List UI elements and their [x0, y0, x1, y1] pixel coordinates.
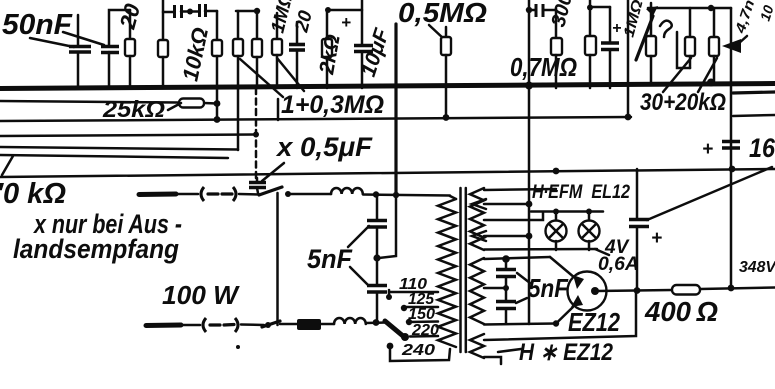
wire vertical x529 top [528, 0, 531, 88]
capacitor C5 [289, 22, 305, 88]
label 125 [408, 291, 435, 308]
pointer 25kOhm [168, 103, 181, 110]
speck [236, 345, 240, 349]
transformer T1 primary winding [438, 199, 456, 347]
label 5nF left [307, 244, 353, 274]
plug pin dashes L1 [208, 192, 232, 195]
wire C1 top [77, 15, 80, 46]
node dot x529 y204 [526, 201, 533, 208]
label 110 [399, 276, 427, 293]
resistor R2 [158, 0, 168, 88]
node dot lamp2 top [586, 209, 592, 215]
main bus wire [0, 84, 775, 89]
tap 110 wire [386, 290, 438, 300]
heater rail bottom [484, 248, 597, 251]
node dot x396 L1 [393, 192, 399, 198]
capacitor C12 5nF [496, 302, 516, 324]
selector blade 220 [385, 321, 409, 341]
transformer T1 secondary winding S2 [470, 258, 484, 324]
pointer 20k [698, 58, 717, 92]
label plus 10uF [341, 13, 351, 32]
node dot cap midpoint [373, 254, 380, 261]
lamp stub top 1 [555, 211, 558, 221]
arrow tail x731 [738, 36, 747, 44]
pointer 0,3M [277, 58, 304, 91]
label 20 rotated [114, 0, 145, 32]
svg-text:x 0,5μF: x 0,5μF [275, 132, 374, 162]
svg-text:EZ12: EZ12 [568, 307, 620, 337]
wire vertical x529 lower [528, 88, 531, 324]
label 0,6A [598, 254, 639, 275]
wire line C y135 [0, 135, 257, 137]
pointer 16uF diagonal [647, 167, 772, 220]
svg-text:+: + [651, 228, 662, 249]
node dot x217 B [214, 116, 221, 123]
output wire right [700, 288, 775, 290]
label x0,5uF [275, 132, 374, 162]
svg-text:0,5MΩ: 0,5MΩ [398, 0, 487, 28]
wire line A y101 with 25k [0, 101, 217, 104]
node dot x506 y259 [502, 255, 510, 263]
lamp stub bottom 1 [555, 241, 558, 250]
pointer 1M [240, 59, 283, 97]
resistor R3 [212, 11, 222, 88]
potentiometer P1 wiper arrow [636, 6, 658, 60]
plug socket L1 left [201, 187, 204, 201]
resistor R14 400 Ohm [672, 285, 700, 295]
label 4,7n rotated [731, 0, 757, 36]
pointer tail left edge [2, 156, 13, 175]
mains wire L2 cont [241, 323, 264, 326]
label plus C8 [612, 20, 621, 37]
label 10uF rotated [357, 25, 394, 80]
node dot L6 x556 [553, 168, 560, 175]
wire vertical x238 [237, 88, 240, 150]
wire main vertical x396 [394, 24, 397, 196]
label 0,5MOhm [398, 0, 487, 28]
resistor R6 [272, 13, 282, 88]
node dot bus x529 [525, 82, 533, 90]
svg-text:150: 150 [408, 306, 435, 323]
node dot x506 y288 [503, 285, 509, 291]
lamp H1 EL12 heater [546, 221, 567, 242]
capacitor C14 16uF symbol [722, 142, 740, 149]
capacitor C13 electrolytic [629, 220, 649, 227]
wire line E y156 [0, 155, 228, 158]
wire vertical x628 [627, 0, 630, 117]
label 4V [604, 237, 630, 258]
svg-text:25kΩ: 25kΩ [102, 96, 165, 122]
wire to 4V label [595, 249, 609, 255]
fuse F1 [280, 319, 321, 330]
node dot R5 top [254, 8, 260, 14]
EZ12 anode chevron 1 [573, 275, 584, 289]
resistor R9 300 [551, 8, 562, 88]
sec tap y236 [484, 235, 530, 238]
heater rail top [531, 210, 603, 213]
svg-text:30+20kΩ: 30+20kΩ [640, 89, 726, 116]
sec tap chevron y236 [472, 231, 486, 241]
mains wire L2 stub [146, 323, 181, 329]
resistor R8 0,5M [441, 27, 451, 117]
wire vertical x731 upper [730, 8, 733, 169]
node dot bus x711 [707, 79, 715, 87]
node dot x217 A [214, 100, 221, 107]
node dot rail x711 [708, 5, 714, 11]
svg-text:400 Ω: 400 Ω [644, 296, 718, 327]
wire stub x278 [277, 99, 280, 120]
arrow tap x731 [722, 39, 741, 53]
anode1 diagonal [550, 257, 575, 278]
tube EZ12 envelope [568, 272, 607, 311]
wire jumper 2k to 10uF [327, 9, 362, 12]
pointer 5nF upper [348, 226, 369, 247]
resistor R11 30k [685, 8, 695, 68]
resistor R12 20k [709, 8, 719, 84]
transformer T1 secondary winding S1 [470, 188, 484, 250]
label x nur bei Aus [32, 209, 182, 239]
label 30+20kOhm [640, 89, 726, 116]
plug pin dashes L2 [210, 323, 234, 327]
pointer 5nF C12 [516, 298, 527, 303]
heater return wire y338 [484, 292, 636, 340]
pointer x0,5uF [262, 163, 284, 181]
wire rail y93 right [733, 92, 775, 93]
primary top entry [450, 196, 456, 199]
resistor R10 [585, 0, 596, 88]
capacitor C9 5nF upper [367, 196, 387, 257]
plug socket L1 right [233, 187, 236, 201]
label plus C13 [651, 228, 662, 249]
label 300 rotated [548, 0, 577, 29]
capacitor C6 10uF electrolytic [354, 0, 373, 88]
node dot x376 L2 [373, 319, 380, 326]
label landsempfang [13, 234, 179, 264]
node dot L6 x732 [729, 166, 736, 173]
plug socket L2 right [235, 318, 238, 332]
capacitor C1 50nF [69, 47, 91, 53]
svg-text:0,7MΩ: 0,7MΩ [510, 52, 577, 82]
dashed link x256 [255, 88, 258, 178]
svg-text:1+0,3MΩ: 1+0,3MΩ [281, 91, 384, 119]
sec tap chevron y204 [472, 199, 486, 209]
potentiometer P1 1M body [646, 3, 656, 85]
lamp stub top 2 [588, 211, 591, 221]
resistor R4 [233, 11, 243, 88]
svg-text:240: 240 [401, 342, 435, 359]
svg-text:348V: 348V [739, 259, 775, 276]
label 240 [401, 342, 435, 359]
svg-text:0,6A: 0,6A [598, 254, 639, 275]
resistor R7 2k [322, 10, 332, 88]
wire top jumper row [163, 11, 217, 12]
wire vertical x637 [636, 169, 639, 291]
wire rail y116 right [733, 115, 775, 116]
svg-text:+: + [702, 139, 713, 160]
sec tap mid stub [484, 287, 506, 290]
EZ12 anode chevron 2 [571, 295, 583, 307]
wire bus drop to midpoint [379, 196, 396, 258]
svg-text:16: 16 [749, 133, 775, 163]
mains wire L1 to coil [288, 193, 331, 196]
svg-text:5nF: 5nF [307, 244, 353, 274]
svg-text:100 W: 100 W [162, 280, 240, 310]
node dot R10 top [587, 5, 593, 11]
label 2kOhm rotated [315, 33, 345, 77]
label 0,7MOhm [510, 52, 577, 82]
EZ12 cathode wire [597, 290, 672, 291]
node dot B x446 [443, 114, 450, 121]
label 348V [739, 259, 775, 276]
wire pot drop to x677 [677, 32, 690, 68]
node dot C end [253, 132, 259, 138]
sec tap heater bottom [484, 357, 501, 364]
sec tap y204 [484, 203, 528, 206]
svg-text:′0 kΩ: ′0 kΩ [0, 178, 66, 210]
wire C1 bottom [77, 52, 80, 88]
capacitor C4 series [200, 4, 206, 17]
mains wire L1 [176, 193, 198, 196]
label 10kOhm rotated [177, 25, 213, 83]
switch blade L2 [262, 321, 280, 327]
sec tap anode1 y258 [484, 257, 550, 259]
label 1MOhm pot rotated [620, 0, 646, 39]
pointer 30k [663, 58, 691, 92]
wire line D y148 [0, 147, 238, 150]
wire jumper R10-C8 [589, 6, 610, 9]
node dot x529 y236 [526, 233, 533, 240]
label 16 [749, 133, 775, 163]
switch blade L1 [259, 187, 282, 195]
sec tap y220 [484, 212, 543, 220]
wiper curl [660, 21, 672, 37]
label 50nF [2, 9, 73, 41]
pointer H EZ12 [498, 349, 521, 352]
wire line L6 full width [0, 169, 775, 177]
mains wire L2 [181, 324, 200, 327]
tap 240 loop [387, 343, 450, 361]
node dot C7 [526, 7, 532, 13]
wire vertical x217 [216, 88, 219, 120]
node dot B x628 [625, 114, 632, 121]
label plus 16uF [702, 139, 713, 160]
node dot x731 output [728, 285, 735, 292]
svg-text:50nF: 50nF [2, 9, 73, 41]
node dot L2 switch [265, 322, 271, 328]
label 0kOhm [0, 178, 66, 210]
svg-text:landsempfang: landsempfang [13, 234, 179, 264]
mains wire L1 cont [239, 193, 260, 196]
sec tap y190 [484, 189, 556, 190]
EZ12 cathode dot [591, 287, 599, 295]
capacitor C7 series [529, 4, 556, 17]
label 25kOhm [102, 96, 165, 122]
transformer T1 secondary winding S3 [470, 334, 484, 358]
svg-text:5nF: 5nF [528, 273, 569, 303]
label EZ12 [568, 307, 620, 337]
capacitor C2 50nF [101, 47, 119, 53]
wire line B y119 [0, 117, 631, 121]
wire jumper R4-R5 [236, 10, 257, 13]
tap 125 wire [401, 305, 438, 311]
label H EZ12 [519, 339, 614, 366]
node dot x637 cathode line [634, 287, 641, 294]
node dot x376 L1 [373, 191, 379, 197]
capacitor Cx 0,5uF [249, 178, 266, 193]
pointer 50nF to C1 [30, 38, 74, 47]
node dot anode2 [553, 320, 559, 326]
lamp H2 EFM heater [579, 221, 600, 242]
anode2 diagonal [556, 307, 573, 324]
node dot jumper [187, 9, 193, 15]
wire thick vertical mains link x277 [276, 193, 279, 325]
mains wire L1 stub [139, 192, 176, 198]
label 1M rotated [267, 0, 297, 35]
capacitor C11 5nF [496, 259, 516, 301]
choke coil L1 [331, 188, 363, 194]
mains wire L1 to transformer [363, 195, 450, 196]
label 5nF right [528, 273, 569, 303]
pointer 50nF to C2 [63, 32, 104, 45]
wire C2 top jumper [109, 10, 130, 46]
label 20b rotated [291, 8, 317, 35]
wire top rail right [648, 7, 731, 10]
svg-text:220: 220 [411, 322, 439, 339]
pointer 0,5MOhm [429, 25, 444, 39]
pointer 5nF C11 [517, 273, 530, 283]
tap 220 wire [410, 335, 438, 338]
svg-text:H ∗ EZ12: H ∗ EZ12 [519, 339, 614, 366]
label 220 [411, 322, 439, 339]
choke coil L2 [334, 318, 366, 324]
lamp stub bottom 2 [588, 241, 591, 250]
label 400 Ohm [644, 296, 718, 327]
capacitor C10 5nF lower [367, 258, 387, 322]
pointer 5nF lower [350, 267, 368, 285]
svg-text:+: + [341, 13, 351, 32]
label 1+0,3MOhm [281, 91, 384, 119]
node dot 2k top [325, 7, 331, 13]
node dot lamp1 top [553, 209, 559, 215]
label 10 rotated [757, 3, 775, 23]
plug socket L2 left [203, 318, 206, 332]
mains wire L2 end [366, 321, 386, 324]
transformer T1 core [461, 188, 466, 352]
wire vertical x731 lower [730, 169, 733, 288]
resistor R13 25k horizontal [179, 99, 204, 108]
capacitor C8 electrolytic [601, 7, 619, 88]
node dot L1 switch [285, 191, 291, 197]
resistor R5 [252, 11, 262, 88]
capacitor C3 series [175, 5, 182, 18]
label 100 W [162, 280, 240, 310]
tap 150 wire [406, 319, 438, 325]
label 150 [408, 306, 435, 323]
wire C2 bottom [108, 52, 111, 88]
mains wire L2 to coil [321, 323, 334, 326]
label H EFM EL12 [532, 182, 630, 203]
svg-text:H∙EFM EL12: H∙EFM EL12 [532, 182, 630, 203]
sec tap anode2 y324 [484, 324, 556, 325]
resistor R1 [125, 10, 135, 88]
